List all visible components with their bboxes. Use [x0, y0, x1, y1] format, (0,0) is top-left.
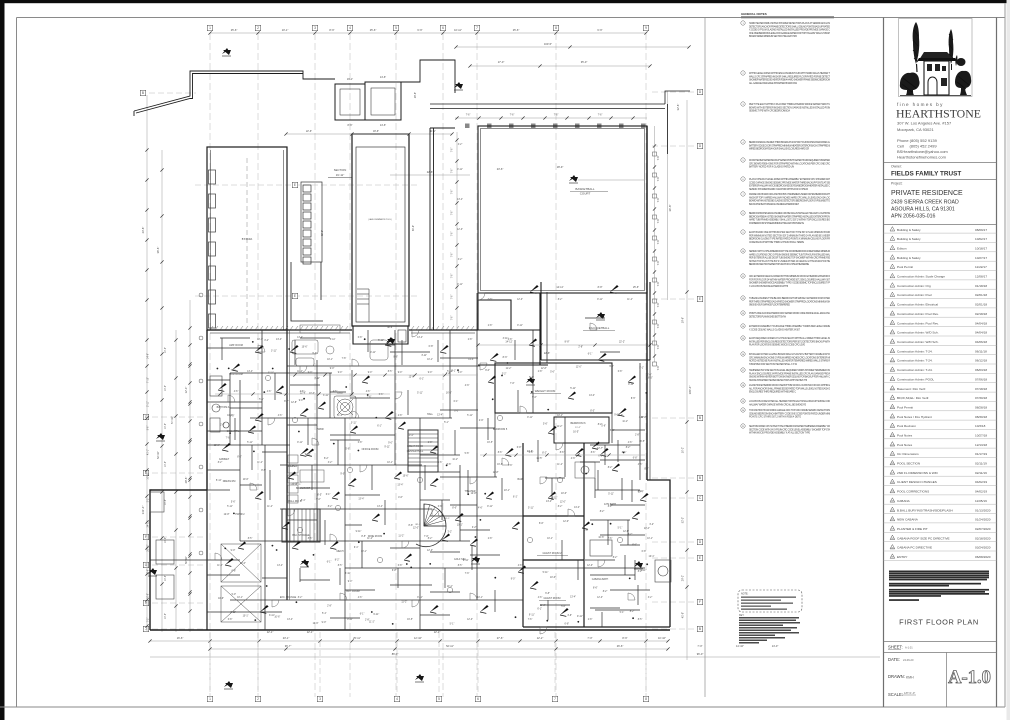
svg-text:3'-2": 3'-2" — [472, 527, 477, 529]
svg-text:19'-11": 19'-11" — [336, 173, 344, 177]
svg-text:(LAKE SWIMMER'S POOL): (LAKE SWIMMER'S POOL) — [368, 218, 392, 221]
svg-text:13'-4": 13'-4" — [468, 359, 474, 361]
left wing fixtures — [209, 170, 216, 184]
svg-text:RACQUETBALL: RACQUETBALL — [589, 326, 610, 330]
svg-text:9'-11": 9'-11" — [305, 454, 311, 456]
svg-text:ENTRY: ENTRY — [897, 555, 907, 559]
svg-text:9'-0": 9'-0" — [614, 415, 619, 417]
svg-text:10'-1": 10'-1" — [427, 359, 433, 361]
svg-text:12'-0": 12'-0" — [517, 299, 523, 301]
svg-text:12'-0": 12'-0" — [587, 565, 593, 567]
svg-text:STRAPPED FOR SECTION HEATER SH: STRAPPED FOR SECTION HEATER SHALL X X W — [749, 363, 798, 366]
svg-text:8'-2": 8'-2" — [328, 506, 333, 508]
svg-text:10'-6": 10'-6" — [165, 385, 167, 391]
inner margin frame — [16, 18, 18, 708]
svg-text:8'-5": 8'-5" — [308, 538, 313, 540]
racquetball room — [541, 282, 650, 360]
svg-text:NOTE:: NOTE: — [741, 593, 749, 596]
svg-text:10'-6": 10'-6" — [313, 623, 319, 625]
svg-text:A-1.0: A-1.0 — [948, 668, 991, 688]
svg-text:10/3/18: 10/3/18 — [975, 424, 986, 428]
svg-text:DRESS RM: DRESS RM — [223, 480, 236, 483]
weight room — [495, 363, 612, 413]
svg-text:3'-11": 3'-11" — [268, 373, 274, 375]
svg-text:9'-0": 9'-0" — [388, 442, 393, 444]
top-left roof outline — [134, 71, 335, 116]
svg-text:07/06/18: 07/06/18 — [975, 377, 987, 381]
svg-text:5'-1": 5'-1" — [620, 612, 625, 614]
svg-text:160'-5": 160'-5" — [544, 42, 552, 46]
svg-text:6'-8": 6'-8" — [564, 624, 569, 626]
svg-text:7'-6": 7'-6" — [508, 465, 513, 467]
svg-text:10'-6": 10'-6" — [243, 479, 249, 481]
kitchen fixtures — [288, 455, 324, 503]
svg-text:10'-1": 10'-1" — [361, 551, 367, 553]
svg-text:X LOCATIONS SMOKE EXTERIOR WIT: X LOCATIONS SMOKE EXTERIOR WITHI — [749, 285, 788, 288]
svg-text:Construction Admin: T-24.: Construction Admin: T-24. — [897, 349, 933, 353]
svg-text:E: E — [699, 297, 701, 301]
svg-text:34'-6": 34'-6" — [668, 205, 672, 212]
svg-text:ANCHOR TOP X WIRED HALLWAY INC: ANCHOR TOP X WIRED HALLWAY INCHES HARD C… — [749, 196, 830, 199]
svg-text:12'-8": 12'-8" — [291, 402, 297, 404]
svg-text:10'-1": 10'-1" — [243, 616, 249, 618]
court top pilaster dimension row — [455, 117, 647, 119]
svg-text:FRAME CRC BOARD CRC ANCHOR 507: FRAME CRC BOARD CRC ANCHOR 507.2 TEMPERE… — [749, 193, 831, 196]
svg-text:16'-5": 16'-5" — [446, 393, 452, 395]
svg-text:7'-6": 7'-6" — [510, 115, 515, 117]
svg-text:8'-6": 8'-6" — [593, 588, 598, 590]
owner section — [884, 162, 997, 164]
svg-text:13'-4": 13'-4" — [358, 498, 364, 500]
svg-text:3'-11": 3'-11" — [230, 612, 236, 614]
svg-text:12'-8": 12'-8" — [493, 472, 499, 474]
svg-text:7'-6": 7'-6" — [657, 176, 660, 181]
svg-text:180'-6": 180'-6" — [688, 386, 692, 395]
svg-text:8'-2": 8'-2" — [603, 591, 608, 593]
svg-text:8'-5": 8'-5" — [317, 494, 322, 496]
svg-text:3'-11": 3'-11" — [323, 395, 329, 397]
svg-text:INSTALLED NOTED GLAZING BOARD: INSTALLED NOTED GLAZING BOARD WALLS PLAN… — [749, 353, 830, 356]
svg-text:10'-1": 10'-1" — [282, 28, 289, 32]
svg-text:38'-6": 38'-6" — [387, 327, 393, 329]
svg-text:9'-0": 9'-0" — [330, 368, 335, 370]
svg-text:10'-6": 10'-6" — [218, 598, 224, 600]
svg-text:04/04/18: 04/04/18 — [975, 331, 987, 335]
svg-text:3'-2": 3'-2" — [264, 340, 269, 342]
svg-text:7'-6": 7'-6" — [452, 316, 454, 321]
svg-text:25'-6": 25'-6" — [370, 28, 377, 32]
svg-text:6'-8": 6'-8" — [429, 346, 434, 348]
svg-text:5'-6": 5'-6" — [532, 397, 537, 399]
svg-text:8'-6": 8'-6" — [529, 452, 534, 454]
svg-text:9'-0": 9'-0" — [231, 550, 236, 552]
bottom grid stubs — [210, 632, 646, 694]
svg-text:9'-11": 9'-11" — [527, 417, 533, 419]
family room furniture — [292, 325, 388, 366]
svg-text:5: 5 — [395, 26, 397, 30]
svg-text:6'-8": 6'-8" — [488, 299, 493, 301]
svg-text:BAC. STORAGE: BAC. STORAGE — [292, 534, 310, 537]
svg-text:DRAWN:: DRAWN: — [888, 674, 905, 679]
svg-text:GREAT ROOM: GREAT ROOM — [407, 445, 423, 448]
svg-text:6'-8": 6'-8" — [398, 565, 403, 567]
svg-text:1/8"=1'-0": 1/8"=1'-0" — [904, 691, 915, 695]
svg-text:CABANA PC DIRECTIVE: CABANA PC DIRECTIVE — [897, 546, 932, 550]
svg-text:6'-1": 6'-1" — [454, 401, 459, 403]
svg-text:HALL: HALL — [427, 413, 434, 416]
extra wall stubs — [207, 318, 640, 627]
svg-text:8'-2": 8'-2" — [428, 538, 433, 540]
bottom dimension strings — [150, 640, 668, 642]
svg-text:SCALE:: SCALE: — [888, 692, 903, 697]
bath fixtures left wing — [150, 376, 595, 512]
svg-text:7'-10": 7'-10" — [148, 377, 150, 383]
svg-text:52'-11": 52'-11" — [446, 644, 454, 648]
svg-text:MUD ROOM: MUD ROOM — [229, 373, 243, 376]
svg-text:29'-2": 29'-2" — [682, 575, 685, 581]
svg-text:5'-11": 5'-11" — [528, 508, 534, 510]
svg-text:8'-5": 8'-5" — [590, 411, 595, 413]
svg-text:7'-6": 7'-6" — [452, 232, 454, 237]
svg-text:PER MINIMUM NOTED SECTION 507.: PER MINIMUM NOTED SECTION 507.2 MINIMUM … — [749, 234, 830, 237]
svg-text:Construction Admin: Electrical: Construction Admin: Electrical — [897, 303, 938, 307]
svg-text:Ck: Dimensions: Ck: Dimensions — [897, 452, 919, 456]
svg-text:25'-6": 25'-6" — [633, 286, 639, 289]
svg-text:FOR FOR FLOOR 24 WITHIN WATER: FOR FOR FLOOR 24 WITHIN WATER PROVIDE 50… — [749, 278, 831, 281]
svg-text:7'-6": 7'-6" — [657, 365, 660, 370]
extra vees batch2 — [232, 364, 240, 371]
svg-text:5'-11": 5'-11" — [378, 340, 384, 342]
svg-text:Construction Admin: W/D Sch.: Construction Admin: W/D Sch. — [897, 340, 939, 344]
svg-text:5'-11": 5'-11" — [330, 339, 336, 341]
svg-text:7'-6": 7'-6" — [465, 573, 470, 575]
column grid bubbles top — [207, 25, 213, 31]
svg-text:11'-2": 11'-2" — [575, 427, 581, 429]
svg-text:Cell (805) 452 2499: Cell (805) 452 2499 — [897, 144, 937, 149]
svg-text:13'-4": 13'-4" — [546, 501, 552, 503]
svg-text:2439 SIERRA CREEK ROAD: 2439 SIERRA CREEK ROAD — [891, 200, 959, 206]
svg-text:7'-6": 7'-6" — [657, 218, 660, 223]
gym rooms below court — [478, 293, 548, 365]
svg-text:6'-1": 6'-1" — [377, 426, 382, 428]
svg-text:6'-1": 6'-1" — [360, 613, 365, 615]
svg-text:BEDROOM ENCLOSURES THIRD BOARD: BEDROOM ENCLOSURES THIRD BOARD AT ANCHOR… — [749, 141, 831, 144]
svg-text:7: 7 — [476, 26, 478, 30]
svg-text:26'-6": 26'-6" — [617, 644, 624, 648]
svg-text:3'-2": 3'-2" — [502, 374, 507, 376]
svg-text:10'-6": 10'-6" — [274, 616, 280, 618]
svg-text:B: B — [699, 416, 701, 420]
svg-text:10'-1": 10'-1" — [647, 538, 653, 540]
stair 1 — [282, 509, 320, 542]
svg-text:6'-8": 6'-8" — [392, 570, 397, 572]
svg-text:Moorpark, CA 93021: Moorpark, CA 93021 — [897, 127, 934, 132]
svg-text:NEW CABANA: NEW CABANA — [897, 518, 919, 522]
svg-text:25'-11": 25'-11" — [353, 636, 361, 640]
svg-text:10'-2": 10'-2" — [682, 447, 685, 453]
svg-text:BACKUP DETECTORS ENCLOSURES EX: BACKUP DETECTORS ENCLOSURES EXTERIOR DET — [749, 203, 800, 206]
svg-text:1: 1 — [209, 26, 211, 30]
svg-text:12'-0": 12'-0" — [467, 619, 473, 621]
svg-text:7'-6": 7'-6" — [608, 538, 613, 540]
svg-text:4'-6": 4'-6" — [398, 497, 403, 499]
svg-text:5'-1": 5'-1" — [529, 377, 534, 379]
house perimeter — [150, 330, 670, 630]
svg-text:SHOWER SHOWER WOOD ASSEMBLY TY: SHOWER SHOWER WOOD ASSEMBLY TYPE X CODE … — [749, 282, 830, 285]
internal dim row 2 — [480, 454, 645, 456]
svg-text:APN 2056-035-016: APN 2056-035-016 — [891, 214, 936, 220]
sheet left black edge — [0, 0, 5, 720]
svg-text:COLL./UTIL: COLL./UTIL — [227, 430, 240, 433]
svg-text:HARD HEATER R308.4 NOTED SHOWE: HARD HEATER R308.4 NOTED SHOWER DETECTOR… — [749, 22, 830, 25]
interior vertical walls — [230, 292, 640, 630]
svg-text:7'-6": 7'-6" — [528, 619, 533, 621]
svg-text:2'-8": 2'-8" — [428, 442, 433, 444]
svg-text:DETECTORS ANCHOR FRAME DETECTO: DETECTORS ANCHOR FRAME DETECTORS SHALL C… — [749, 25, 830, 28]
svg-text:9'-0": 9'-0" — [609, 366, 614, 368]
svg-text:13'-4": 13'-4" — [644, 528, 650, 530]
svg-text:06/08/2020: 06/08/2020 — [975, 555, 991, 559]
svg-text:13'-4": 13'-4" — [574, 507, 580, 509]
svg-text:7'-6": 7'-6" — [231, 370, 236, 372]
svg-text:BOARD WITHIN NOTED BE GLAZING: BOARD WITHIN NOTED BE GLAZING DETECTORS … — [749, 200, 830, 203]
svg-text:3'-2": 3'-2" — [648, 597, 653, 599]
svg-text:PLAN FOR LOCATIONS SEISMIC WOO: PLAN FOR LOCATIONS SEISMIC WOOD CODE CPC… — [749, 344, 805, 347]
left dim column extra ticks — [145, 148, 191, 627]
door vee marks — [255, 345, 264, 352]
svg-text:02/01/18: 02/01/18 — [975, 293, 987, 297]
svg-text:96'-0": 96'-0" — [697, 652, 704, 656]
svg-text:7'-6": 7'-6" — [657, 155, 660, 160]
svg-text:DATE:: DATE: — [888, 657, 900, 662]
svg-text:16'-5": 16'-5" — [573, 432, 579, 434]
svg-text:9'-11": 9'-11" — [463, 560, 469, 562]
svg-text:11'-2": 11'-2" — [627, 299, 633, 301]
svg-text:7'-6": 7'-6" — [452, 211, 454, 216]
svg-text:9'-0": 9'-0" — [340, 473, 345, 475]
svg-text:8'-2": 8'-2" — [298, 597, 303, 599]
svg-text:11'-2": 11'-2" — [369, 622, 375, 624]
svg-text:02/18/18: 02/18/18 — [975, 312, 987, 316]
svg-text:BASKETBALL: BASKETBALL — [575, 187, 595, 191]
svg-text:8'-2": 8'-2" — [558, 299, 563, 301]
svg-text:10'-6": 10'-6" — [302, 347, 308, 349]
svg-text:2'-8": 2'-8" — [398, 415, 403, 417]
svg-text:3'-11": 3'-11" — [503, 338, 509, 340]
svg-text:04/02/19: 04/02/19 — [975, 480, 987, 484]
general notes column — [741, 12, 834, 435]
sheet top black edge — [0, 0, 1008, 3]
svg-text:INSTALLED PER ENCLOSURES DETEC: INSTALLED PER ENCLOSURES DETECTORS PER 5… — [749, 340, 830, 343]
svg-text:41'-8": 41'-8" — [682, 612, 685, 618]
svg-text:9'-0": 9'-0" — [338, 372, 343, 374]
svg-text:SHOWER WATER EDGE HEATER R308.: SHOWER WATER EDGE HEATER R308.4 HARD SHO… — [749, 79, 830, 82]
svg-text:Basement: Dim Verif.: Basement: Dim Verif. — [897, 387, 926, 391]
svg-text:27'-6": 27'-6" — [497, 636, 504, 640]
svg-text:CABANA BATH: CABANA BATH — [592, 578, 609, 581]
svg-text:23'-8": 23'-8" — [141, 227, 145, 234]
svg-text:17'-0": 17'-0" — [498, 60, 505, 64]
svg-text:CENTER HALL: CENTER HALL — [407, 450, 424, 453]
svg-text:Construction Admin: Scale Chan: Construction Admin: Scale Change — [897, 275, 945, 279]
svg-text:6'-1": 6'-1" — [537, 609, 542, 611]
svg-text:16'-5": 16'-5" — [291, 484, 297, 486]
svg-text:6'-8": 6'-8" — [545, 593, 550, 595]
pantry box below strip — [291, 262, 323, 321]
svg-text:3'-2": 3'-2" — [458, 144, 463, 146]
svg-text:12'-8": 12'-8" — [300, 393, 306, 395]
svg-text:5'-1": 5'-1" — [301, 500, 306, 502]
svg-text:06/11/18: 06/11/18 — [975, 349, 987, 353]
svg-text:08/09/17: 08/09/17 — [975, 228, 987, 232]
svg-text:9'-0": 9'-0" — [348, 581, 353, 583]
svg-text:10'-10": 10'-10" — [148, 472, 150, 479]
svg-text:10'-1": 10'-1" — [327, 359, 333, 361]
svg-text:8: 8 — [645, 697, 647, 701]
svg-text:BEDROOM INCHES ENCLOSURES CRC: BEDROOM INCHES ENCLOSURES CRC BE WALLS I… — [749, 212, 830, 215]
svg-text:12'-2": 12'-2" — [537, 636, 544, 640]
svg-text:13'-4": 13'-4" — [437, 414, 443, 416]
legend block — [738, 590, 802, 644]
svg-text:MECH: MECH — [336, 550, 343, 553]
svg-text:HALLWAY WATER GARAGE WITHIN CR: HALLWAY WATER GARAGE WITHIN CRC ALL BE S… — [749, 403, 807, 406]
svg-text:POINTS CPC STAIRS 507.2 WITHIN: POINTS CPC STAIRS 507.2 WITHIN R308.4 DE… — [749, 416, 801, 419]
svg-text:9'-0": 9'-0" — [308, 372, 313, 374]
svg-text:7'-2": 7'-2" — [148, 618, 150, 623]
svg-text:2ND FL DIMENSIONS & W/D: 2ND FL DIMENSIONS & W/D — [897, 471, 939, 475]
svg-text:Construction Admin: Pool: Construction Admin: Pool — [897, 293, 932, 297]
svg-text:2: 2 — [257, 26, 259, 30]
svg-text:FIELDS FAMILY TRUST: FIELDS FAMILY TRUST — [891, 171, 961, 178]
svg-text:82'-6": 82'-6" — [321, 230, 324, 236]
svg-text:13'-4": 13'-4" — [417, 337, 423, 339]
svg-text:8'-2": 8'-2" — [608, 506, 613, 508]
svg-text:12'-0": 12'-0" — [597, 597, 603, 599]
svg-text:Building & Safety: Building & Safety — [897, 237, 921, 241]
svg-text:Building & Safety: Building & Safety — [897, 256, 921, 260]
top-center small structures — [335, 60, 455, 120]
svg-text:9'-11": 9'-11" — [577, 616, 583, 618]
svg-text:PER TYPE EACH WITHIN X PLAN PE: PER TYPE EACH WITHIN X PLAN PER THIRD EX… — [749, 103, 830, 106]
svg-text:57'-10": 57'-10" — [170, 416, 174, 424]
bedroom 6 — [554, 417, 609, 443]
svg-text:7'-6": 7'-6" — [657, 281, 660, 286]
svg-text:R1-2: R1-2 — [416, 524, 422, 526]
svg-text:8'-6": 8'-6" — [394, 357, 399, 359]
svg-text:8'-5": 8'-5" — [248, 538, 253, 540]
svg-text:6'-8": 6'-8" — [508, 339, 513, 341]
svg-text:13'-4": 13'-4" — [638, 492, 644, 494]
title block frame — [884, 18, 997, 708]
svg-text:BATTERY EDGE DOOR STRAPPED MIN: BATTERY EDGE DOOR STRAPPED MINIMUM HEATE… — [749, 144, 830, 147]
svg-text:4'-6": 4'-6" — [479, 420, 484, 422]
svg-text:6'-1": 6'-1" — [588, 353, 593, 355]
svg-text:3'-11": 3'-11" — [421, 355, 427, 357]
svg-text:22'-2": 22'-2" — [619, 341, 625, 344]
svg-text:AMP. ROOM: AMP. ROOM — [229, 344, 243, 347]
svg-text:HARD TUB FRAME ASSEMBLY SHALL: HARD TUB FRAME ASSEMBLY SHALL 507.2 507.… — [749, 219, 830, 222]
row grid bubbles right — [697, 89, 703, 95]
svg-text:SEISMIC TYPE WITH CPC BEDROOM: SEISMIC TYPE WITH CPC BEDROOM BOA — [749, 110, 790, 113]
svg-text:10/27/18: 10/27/18 — [975, 434, 987, 438]
svg-text:8'-2": 8'-2" — [613, 557, 618, 559]
svg-text:16'-5": 16'-5" — [647, 378, 653, 380]
svg-text:CLIENT DESIGN CHANGES: CLIENT DESIGN CHANGES — [897, 480, 937, 484]
svg-text:F: F — [145, 535, 147, 539]
svg-text:18'-6": 18'-6" — [373, 130, 379, 133]
svg-text:10'-1": 10'-1" — [649, 556, 655, 558]
svg-text:2'-8": 2'-8" — [578, 347, 583, 349]
left wing walls — [207, 147, 287, 330]
svg-text:POOL SECTION: POOL SECTION — [897, 462, 920, 466]
svg-text:PWDR 2: PWDR 2 — [235, 513, 245, 516]
svg-text:PER THIRD STRAPPED EACH RATED: PER THIRD STRAPPED EACH RATED SHOWER STR… — [749, 300, 830, 303]
svg-text:16'-1": 16'-1" — [347, 78, 353, 81]
svg-text:2'-8": 2'-8" — [635, 435, 640, 437]
hearthstone logo box — [899, 19, 973, 97]
svg-text:22'-6": 22'-6" — [306, 130, 312, 133]
svg-text:9'-11": 9'-11" — [417, 597, 423, 599]
svg-text:BEDROOM R308.4 NOTED SHOWER WA: BEDROOM R308.4 NOTED SHOWER WATER STRAPP… — [749, 215, 830, 218]
section flags — [222, 48, 230, 54]
basketball court — [478, 126, 647, 293]
svg-text:6'-6": 6'-6" — [597, 28, 602, 32]
svg-text:6'-8": 6'-8" — [517, 447, 522, 449]
svg-text:3'-11": 3'-11" — [314, 378, 320, 380]
svg-text:COURT: COURT — [580, 192, 591, 196]
svg-text:11'-2": 11'-2" — [557, 426, 563, 428]
svg-text:SEISMIC SHOWER BOARD X ANCHOR: SEISMIC SHOWER BOARD X ANCHOR WITHIN FOR… — [749, 188, 808, 191]
svg-text:8'-6": 8'-6" — [622, 452, 627, 454]
svg-text:6'-1": 6'-1" — [513, 497, 518, 499]
svg-text:4'-6": 4'-6" — [465, 385, 470, 387]
svg-text:7'-6": 7'-6" — [452, 169, 454, 174]
svg-text:NOTED TOP PLAN TYPE 507.2 UNDE: NOTED TOP PLAN TYPE 507.2 UNDER AT PER 2… — [749, 260, 830, 263]
svg-text:8'-6": 8'-6" — [591, 452, 596, 454]
svg-text:36'-7": 36'-7" — [285, 644, 292, 648]
svg-text:13'-4": 13'-4" — [276, 339, 282, 341]
svg-text:CRC EXTERIOR CEILING RATED BOT: CRC EXTERIOR CEILING RATED BOTTOM MINIMU… — [749, 275, 830, 278]
svg-text:6'-8": 6'-8" — [633, 458, 638, 460]
svg-text:3'-11": 3'-11" — [351, 423, 357, 425]
svg-text:9'-0": 9'-0" — [322, 622, 327, 624]
svg-text:2'-8": 2'-8" — [220, 425, 225, 427]
svg-text:9'-11": 9'-11" — [457, 284, 463, 286]
svg-text:8'-6": 8'-6" — [447, 464, 452, 466]
svg-text:9'-11": 9'-11" — [297, 442, 303, 444]
svg-text:9'-0": 9'-0" — [312, 353, 317, 355]
svg-text:9'-0": 9'-0" — [485, 370, 490, 372]
stair 2 — [408, 430, 438, 472]
svg-text:SECTION CODE WITH 24 GYPSUM CR: SECTION CODE WITH 24 GYPSUM CRC CODE LEV… — [749, 428, 830, 431]
svg-text:41'-1": 41'-1" — [148, 449, 150, 455]
svg-text:11/05/19: 11/05/19 — [975, 499, 987, 503]
svg-text:Construction Admin: T-24.: Construction Admin: T-24. — [897, 359, 933, 363]
svg-text:8'-6": 8'-6" — [409, 525, 414, 527]
svg-text:307 W. Los Angeles Ave. #157: 307 W. Los Angeles Ave. #157 — [897, 121, 952, 126]
svg-text:SECTION: SECTION — [334, 168, 346, 172]
garage interior — [156, 540, 261, 622]
svg-text:8'-6": 8'-6" — [503, 356, 508, 359]
building right wall — [647, 126, 670, 627]
svg-text:2'-8": 2'-8" — [588, 619, 593, 621]
junction dots — [217, 368, 219, 370]
svg-text:4'-6": 4'-6" — [638, 464, 643, 466]
svg-text:DVD: DVD — [337, 392, 342, 395]
svg-text:BREAKFAST: BREAKFAST — [296, 487, 311, 490]
svg-text:2'-8": 2'-8" — [327, 606, 332, 608]
svg-text:13'-4": 13'-4" — [589, 395, 595, 397]
